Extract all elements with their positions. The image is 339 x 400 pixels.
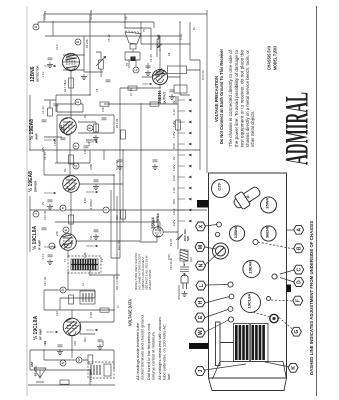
- svg-text:0V: 0V: [172, 156, 176, 160]
- svg-text:F: F: [74, 145, 78, 147]
- svg-text:-8.5V: -8.5V: [83, 198, 87, 204]
- svg-text:1.8V: 1.8V: [41, 146, 45, 152]
- svg-text:J: J: [34, 213, 38, 215]
- svg-text:RF AMP: RF AMP: [39, 329, 43, 340]
- svg-text:the power line. To avoid poss: the power line. To avoid possibility of …: [234, 49, 239, 147]
- svg-text:R10: R10: [115, 215, 119, 220]
- svg-text:R6 1.2K: R6 1.2K: [115, 118, 119, 128]
- svg-text:R9 220K: R9 220K: [89, 10, 93, 20]
- svg-text:F: F: [296, 299, 302, 302]
- svg-text:R3: R3: [63, 168, 67, 172]
- svg-text:118V: 118V: [172, 121, 176, 127]
- svg-text:D: D: [297, 280, 303, 284]
- svg-text:test equipment or to recei: test equipment or to receiver, do not pl…: [239, 49, 244, 147]
- svg-text:12V: 12V: [87, 141, 91, 146]
- svg-text:RF COIL: RF COIL: [34, 365, 38, 376]
- svg-text:OUTPUT: OUTPUT: [163, 92, 167, 105]
- svg-text:chassis directly on a metal se: chassis directly on a metal service benc…: [245, 49, 250, 147]
- svg-text:-6.5V: -6.5V: [172, 175, 176, 182]
- svg-text:line.: line.: [166, 373, 171, 380]
- svg-text:R2 1 MEG: R2 1 MEG: [63, 80, 67, 92]
- svg-text:tube voltmeter, on 120 Vol: tube voltmeter, on 120 Volts AC: [162, 324, 167, 380]
- svg-text:AMP: AMP: [35, 133, 39, 140]
- svg-text:36EH6: 36EH6: [265, 225, 270, 238]
- svg-text:A: A: [297, 228, 303, 232]
- svg-text:R8: R8: [167, 52, 171, 56]
- svg-text:115V: 115V: [172, 132, 176, 138]
- svg-text:C2 5: C2 5: [55, 44, 59, 50]
- svg-text:0V: 0V: [41, 202, 45, 205]
- svg-text:IF 455KC: IF 455KC: [89, 199, 93, 210]
- svg-text:C14 .05: C14 .05: [43, 10, 47, 20]
- svg-text:L1 LOOP: L1 LOOP: [89, 371, 93, 382]
- svg-text:C13: C13: [55, 311, 59, 316]
- svg-text:-1.1V: -1.1V: [172, 109, 176, 116]
- svg-text:121V: 121V: [172, 208, 176, 215]
- svg-text:N: N: [198, 263, 204, 267]
- svg-text:C29: C29: [217, 183, 222, 191]
- svg-text:C6: C6: [95, 88, 99, 92]
- svg-text:K: K: [291, 366, 297, 370]
- svg-text:J: J: [198, 369, 204, 372]
- svg-text:95V: 95V: [172, 199, 176, 204]
- svg-text:C8: C8: [124, 16, 128, 20]
- svg-text:C5 .02: C5 .02: [107, 34, 111, 42]
- svg-text:SEE PAGE 2. ALL RES 1/2 W: SEE PAGE 2. ALL RES 1/2 W: [145, 255, 149, 290]
- svg-text:B+: B+: [192, 26, 196, 30]
- svg-text:R14: R14: [189, 257, 193, 262]
- svg-text:C3 .01: C3 .01: [41, 106, 45, 114]
- svg-text:12BN6: 12BN6: [233, 225, 238, 238]
- svg-text:ANT: ANT: [30, 361, 34, 367]
- svg-text:1.8V: 1.8V: [53, 140, 57, 146]
- svg-text:0V: 0V: [172, 100, 176, 104]
- svg-text:8.5V: 8.5V: [172, 143, 176, 149]
- svg-text:CABINET. FOR ALIGNMENT: CABINET. FOR ALIGNMENT: [141, 256, 145, 290]
- svg-text:C1A: C1A: [43, 341, 47, 346]
- svg-text:1.8V: 1.8V: [172, 187, 176, 193]
- svg-text:W: W: [198, 330, 204, 335]
- svg-text:C9 .05: C9 .05: [149, 54, 153, 62]
- svg-text:DASHED LINE INDICATES ADJUS: DASHED LINE INDICATES ADJUSTMENT FROM UN…: [309, 221, 314, 375]
- svg-text:OSC: OSC: [101, 340, 105, 346]
- svg-text:35W4: 35W4: [265, 198, 270, 209]
- svg-text:19EA8: 19EA8: [248, 261, 253, 274]
- svg-text:C4 .05: C4 .05: [43, 152, 47, 160]
- svg-text:The chassis is connected direc: The chassis is connected directly to one…: [228, 49, 233, 147]
- svg-text:C1B: C1B: [73, 341, 77, 346]
- svg-text:H: H: [198, 300, 204, 304]
- svg-text:1.1V: 1.1V: [41, 253, 45, 259]
- svg-text:ADMIRAL: ADMIRAL: [280, 92, 316, 165]
- svg-text:117V: 117V: [172, 220, 176, 226]
- svg-text:112V: 112V: [172, 165, 176, 171]
- svg-text:R4: R4: [83, 114, 87, 118]
- svg-text:PILOT: PILOT: [169, 238, 173, 246]
- svg-text:5V3. SAME AS T1595 EXCEPT: 5V3. SAME AS T1595 EXCEPT: [138, 253, 142, 290]
- svg-text:R7 470K: R7 470K: [115, 160, 119, 170]
- svg-text:INTERLOCK: INTERLOCK: [177, 285, 181, 300]
- svg-text:R11 2.2 MEG: R11 2.2 MEG: [115, 274, 119, 290]
- svg-text:-1.1V: -1.1V: [41, 72, 45, 78]
- svg-text:socket terminals and chassis g: socket terminals and chassis ground.: [140, 314, 145, 380]
- svg-text:M: M: [198, 245, 204, 249]
- svg-text:R1 22K: R1 22K: [85, 39, 89, 48]
- svg-text:220K: 220K: [89, 164, 93, 170]
- svg-text:IF AMP: IF AMP: [38, 240, 42, 250]
- svg-text:36EH6: 36EH6: [157, 90, 162, 104]
- svg-text:12V: 12V: [83, 149, 87, 154]
- svg-text:G: G: [74, 164, 78, 167]
- svg-text:47K: 47K: [101, 107, 105, 112]
- svg-text:UNLESS NOTED.: UNLESS NOTED.: [148, 269, 152, 290]
- svg-text:35W4: 35W4: [151, 217, 156, 229]
- svg-text:C11: C11: [89, 235, 93, 240]
- svg-text:other metal objects.: other metal objects.: [250, 110, 255, 147]
- svg-text:470K: 470K: [179, 34, 183, 40]
- svg-text:VOLTAGE DATA: VOLTAGE DATA: [128, 299, 133, 326]
- svg-text:R12 150: R12 150: [117, 240, 121, 250]
- svg-text:118V: 118V: [83, 252, 87, 258]
- svg-text:19CL8A: 19CL8A: [247, 293, 252, 308]
- svg-text:RECTIFIER: RECTIFIER: [156, 212, 160, 229]
- svg-text:M: M: [61, 288, 65, 291]
- svg-text:MODEL T1593: MODEL T1593: [273, 46, 278, 70]
- svg-text:Do Not Connect an Earth Ground: Do Not Connect an Earth Ground To This R…: [219, 49, 224, 144]
- svg-text:C12 .05: C12 .05: [43, 276, 47, 286]
- svg-text:C: C: [297, 267, 303, 271]
- svg-text:SW: SW: [186, 236, 190, 241]
- svg-text:DETECTOR: DETECTOR: [36, 65, 40, 82]
- svg-text:volume control at minimum.: volume control at minimum.: [151, 331, 156, 380]
- svg-text:22K: 22K: [55, 231, 59, 236]
- svg-text:150V: 150V: [167, 254, 171, 260]
- svg-text:470K: 470K: [89, 312, 93, 318]
- svg-text:C10 .05: C10 .05: [43, 210, 47, 220]
- svg-text:B: B: [297, 246, 303, 250]
- svg-text:DRIVER: DRIVER: [34, 180, 38, 192]
- svg-text:CHASSIS 5V3: CHASSIS 5V3: [267, 46, 272, 70]
- svg-text:VOLUME: VOLUME: [157, 34, 161, 48]
- svg-text:C7 .05: C7 .05: [129, 88, 133, 96]
- svg-text:95V: 95V: [83, 337, 87, 342]
- svg-text:G: G: [294, 330, 300, 334]
- svg-text:L: L: [199, 284, 205, 287]
- svg-text:MODEL T1593 USES CHASSIS: MODEL T1593 USES CHASSIS: [134, 253, 138, 290]
- svg-text:117V AC: 117V AC: [201, 70, 205, 80]
